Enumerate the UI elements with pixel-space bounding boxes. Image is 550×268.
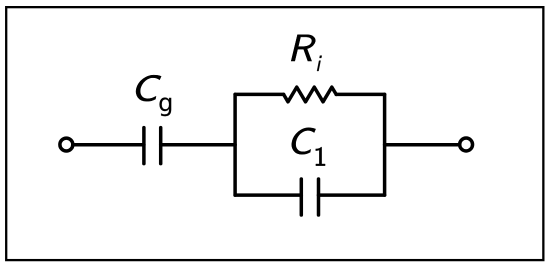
label Cg xyxy=(133,75,162,101)
wire top-left lead xyxy=(235,93,284,97)
node: left vertical of parallel block xyxy=(233,94,237,195)
capacitor Cg xyxy=(144,128,161,164)
wire from left terminal to Cg xyxy=(73,143,144,147)
capacitor C1 xyxy=(301,179,318,215)
label C1 xyxy=(289,128,316,155)
node: right vertical of parallel block xyxy=(383,94,387,195)
wire from block to right terminal xyxy=(385,143,460,147)
wire bottom-left lead xyxy=(235,193,301,197)
terminal left xyxy=(60,138,73,151)
label Ri xyxy=(291,35,318,61)
wire bottom-right lead xyxy=(319,193,385,197)
wire from Cg to parallel block xyxy=(161,143,235,147)
resistor Ri xyxy=(284,87,337,102)
wire top-right lead xyxy=(336,93,384,97)
terminal right xyxy=(460,138,473,151)
